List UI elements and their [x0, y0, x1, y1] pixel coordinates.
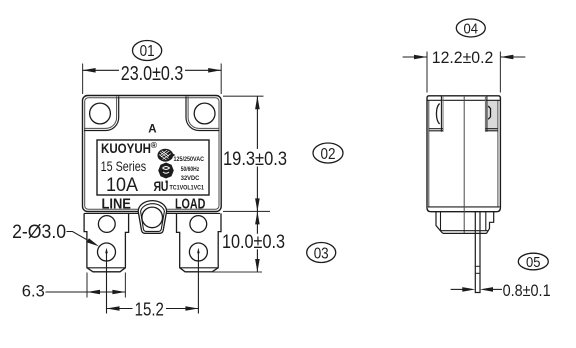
balloon 02 — [313, 143, 343, 163]
dimension 0.8 line left — [451, 288, 463, 290]
side view blade notch — [475, 265, 480, 267]
dimension 12.2 extension lines — [426, 52, 428, 93]
terminal LINE chamfer line — [87, 267, 126, 269]
terminal LINE upper hole — [98, 216, 115, 233]
terminal LOAD chamfer line — [180, 267, 219, 269]
svg-text:10A: 10A — [106, 174, 138, 196]
svg-text:®: ® — [151, 140, 158, 150]
side view collar left outer — [436, 212, 443, 234]
side view body outline — [427, 96, 500, 212]
side view bottom inner line — [428, 206, 500, 208]
dimension 15.2 arrows — [107, 306, 120, 311]
dimension 10.0 extension line bottom — [198, 271, 263, 273]
side view collar right outer — [487, 212, 494, 234]
svg-text:10.0±0.3: 10.0±0.3 — [222, 232, 285, 253]
terminal LOAD upper hole — [190, 216, 207, 233]
side view cap line — [427, 99, 500, 101]
svg-text:02: 02 — [321, 146, 336, 163]
side view right pocket shading — [487, 101, 497, 132]
balloon 04 — [456, 19, 485, 38]
svg-text:12.2±0.2: 12.2±0.2 — [432, 49, 494, 67]
dimension 10.0 arrows — [255, 211, 260, 224]
svg-text:LOAD: LOAD — [175, 197, 206, 213]
balloon 05 — [518, 253, 548, 271]
svg-text:TC1VOL1VC1: TC1VOL1VC1 — [170, 186, 205, 192]
front view body inner outline — [85, 98, 219, 210]
svg-text:KUOYUH: KUOYUH — [101, 140, 151, 156]
side view collar right inner — [485, 212, 487, 231]
svg-text:6.3: 6.3 — [22, 281, 45, 300]
screw hole top-right — [194, 103, 215, 124]
CSA logo — [158, 149, 175, 161]
dimension 23.0 line — [83, 69, 222, 71]
side view clip pocket right — [485, 96, 498, 132]
svg-text:0.8±0.1: 0.8±0.1 — [503, 281, 551, 300]
terminal LINE hole center mark — [105, 248, 108, 254]
side view clip spring right — [488, 106, 490, 119]
svg-text:15.2: 15.2 — [135, 299, 164, 319]
svg-text:05: 05 — [526, 255, 541, 271]
svg-text:23.0±0.3: 23.0±0.3 — [121, 63, 184, 85]
side view collar bottom edge — [443, 232, 487, 234]
balloon 03 — [307, 243, 336, 263]
front view body outer outline — [83, 96, 222, 212]
svg-text:LINE: LINE — [101, 197, 131, 213]
dimension 10.0 line — [256, 211, 258, 272]
svg-text:03: 03 — [314, 245, 329, 262]
dimension 6.3 line — [46, 291, 126, 293]
balloon 01 — [133, 41, 162, 61]
terminal LINE tab outline — [84, 213, 129, 271]
dimension 6.3 extension lines — [86, 273, 88, 298]
reset button circle — [142, 207, 163, 228]
dimension 19.3 arrows — [255, 96, 260, 109]
svg-text:32VDC: 32VDC — [181, 176, 200, 182]
dimension 23.0 extension lines — [82, 64, 84, 95]
dimension 12.2 arrows — [414, 55, 427, 60]
terminal LOAD tab outline — [177, 213, 222, 271]
dimension 12.2 line left — [403, 56, 427, 58]
side view clip spring left — [436, 104, 439, 125]
terminal LOAD lower hole — [189, 243, 207, 261]
svg-text:04: 04 — [464, 21, 479, 38]
svg-text:19.3±0.3: 19.3±0.3 — [223, 148, 287, 170]
label box — [97, 140, 209, 195]
terminal LINE lower hole — [98, 243, 116, 261]
front view bottom inner line — [84, 212, 220, 214]
terminal LOAD hole center mark — [197, 248, 200, 254]
svg-text:15 Series: 15 Series — [101, 159, 147, 174]
svg-text:A: A — [148, 124, 156, 136]
side view center line — [463, 96, 465, 233]
reset button dome outer — [138, 201, 166, 234]
dimension 15.2 center lines — [106, 252, 108, 314]
mounting ear top-right — [186, 97, 220, 131]
dimension 19.3 line — [256, 96, 258, 211]
dimension 6.3 arrows — [87, 290, 100, 295]
dimension 0.8 arrows — [462, 287, 475, 292]
mounting ear top-left — [84, 97, 119, 131]
side view collar bottom line — [441, 230, 488, 232]
svg-text:125/250VAC: 125/250VAC — [174, 157, 205, 163]
svg-text:01: 01 — [140, 43, 155, 60]
leader line — [67, 232, 88, 241]
leader arrow — [87, 238, 99, 246]
screw hole top-left — [90, 103, 111, 124]
svg-text:2-Ø3.0: 2-Ø3.0 — [12, 222, 66, 243]
reset button dome inner — [141, 204, 165, 232]
dimension 23.0 arrows — [83, 68, 96, 73]
dimension 0.8 line right — [492, 288, 502, 290]
dimension 12.2 line right — [500, 56, 525, 58]
side view blade — [475, 212, 480, 293]
side view clip pocket left — [429, 96, 443, 132]
side view inner walls — [428, 100, 430, 207]
CCC logo — [158, 163, 174, 179]
dimension 15.2 line — [107, 308, 199, 310]
dimension 19.3 extension lines — [223, 95, 264, 97]
side view collar left inner — [440, 212, 442, 231]
svg-text:50/60Hz: 50/60Hz — [181, 167, 199, 173]
